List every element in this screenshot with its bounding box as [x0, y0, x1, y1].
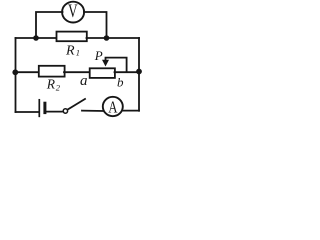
battery short plate — [43, 103, 46, 112]
wire — [16, 71, 40, 73]
wiper arrow of rheostat — [102, 58, 127, 72]
resistor R2 — [39, 66, 65, 93]
node junction top-right — [104, 35, 110, 41]
wire — [87, 37, 140, 39]
svg-text:R: R — [65, 44, 75, 59]
svg-text:a: a — [80, 73, 88, 89]
switch pivot — [63, 109, 67, 113]
svg-text:R: R — [46, 77, 56, 92]
wire — [46, 111, 63, 113]
battery long plate — [38, 100, 40, 117]
svg-text:b: b — [117, 74, 124, 89]
svg-text:P: P — [94, 48, 103, 63]
wire — [115, 71, 140, 73]
wire — [84, 12, 107, 38]
wire — [16, 37, 58, 39]
node junction top-left — [33, 35, 39, 41]
wire — [36, 12, 63, 38]
wire switch fixed contact — [82, 110, 103, 112]
svg-text:V: V — [68, 0, 78, 22]
svg-text:A: A — [108, 99, 118, 117]
voltmeter V — [62, 0, 84, 23]
rheostat P slider box — [90, 68, 115, 78]
wire — [123, 110, 140, 112]
ammeter A — [103, 97, 123, 117]
wire bottom left — [16, 111, 39, 113]
svg-text:1: 1 — [76, 48, 80, 58]
resistor R1 — [57, 32, 87, 59]
wire left edge — [15, 38, 17, 112]
wire right edge — [138, 38, 140, 111]
svg-text:2: 2 — [56, 83, 61, 93]
node junction right — [136, 69, 142, 75]
switch lever — [68, 99, 86, 110]
wire — [64, 71, 90, 73]
node junction left — [12, 69, 18, 75]
